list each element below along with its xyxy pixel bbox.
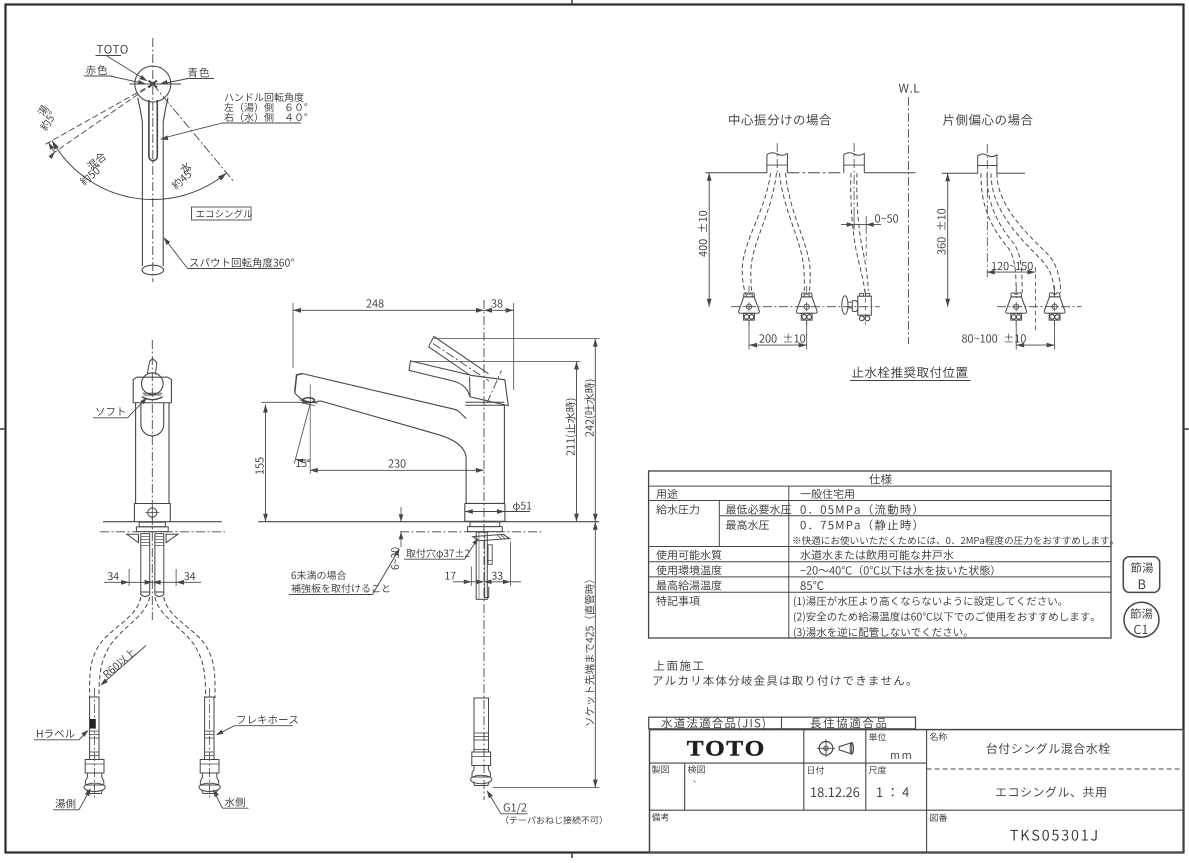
spec table row 使用環境温度 [656,565,721,575]
side handle lever (lowered) [409,361,508,406]
spec table outer frame [649,471,1111,638]
side handle raised position (dash-dot tilt axis) [429,336,489,373]
plan horizontal line through knob center [130,83,182,85]
plan dashed radial line hot limit [45,84,153,145]
side body column [465,457,467,503]
front label 湯側 with leader [55,799,75,809]
front label R60以上 rotated with leader [102,647,137,679]
plan label 湯 約5° (rotated) [36,104,49,117]
title block 日付 [808,766,824,774]
spec table row 使用可能水質 [656,550,721,560]
plan dash-dot radial line cold limit [153,84,233,181]
sheet center tick top [571,0,573,5]
plan label 混合 約50° (rotated) [86,151,108,171]
right diagram valve centerline [997,306,1082,308]
right diagram hoses (dashed) [981,173,1016,298]
dimension 200±10 [749,344,807,346]
right diagram stop valve 2 [1054,286,1056,295]
front mounting nuts under deck [139,522,165,527]
plan small arc 約5° [49,142,55,152]
label G1/2 with leader [504,803,527,814]
left diagram stop valve hot [748,286,750,295]
front label 水側 with leader [225,797,245,807]
front below-deck dash-dot line [100,531,225,533]
dimension 242(吐水時) right [594,339,596,522]
title block 図番 and product number [930,814,947,822]
plan label TOTO with leader [97,45,128,54]
front body shoulder section [133,377,171,403]
plan dashed radial line hot detent [51,84,153,155]
spec table row 特記事項 [656,596,699,606]
side deck counter line [258,521,599,523]
label 取付穴φ37±2 with leader [406,549,469,559]
left diagram valve centerline [731,306,880,308]
title 片側偏心の場合 [943,114,1033,125]
plan label 水 約45° (rotated) [178,161,192,175]
TOTO logo [687,741,763,756]
front hot pipe end fitting [85,760,104,774]
front mounting flange wings [127,534,139,542]
side shank bottom hook [485,587,489,598]
left diagram hose from stub2 (dashed) [851,173,865,293]
dimension φ51 [465,511,505,513]
side base escutcheon [465,503,505,521]
front supply pipe cold (right) [208,688,210,800]
title 中心振分けの場合 [729,114,831,126]
dimension 230 with 15° angle [310,469,484,471]
front label ソフト with leader [96,407,124,415]
spec table row lines [649,485,1111,487]
front handle ball [142,373,164,395]
sheet center tick left [0,428,6,430]
title block approval strip [649,717,916,729]
plan view handle lever outline [138,98,143,267]
front body lower [135,403,137,504]
left diagram deck line [705,172,767,174]
title 止水栓推奨取付位置 underlined [852,367,967,379]
dimension 211(止水時) right [576,362,578,522]
title block main frame [650,730,1184,853]
front shank tube bottom caps [141,592,150,597]
front hose right (dashed) [164,597,215,698]
15 degree water angle lines [294,404,310,464]
front dimension 34-34 [129,581,176,583]
front shank tubes [141,534,150,592]
title block 備考 [652,813,669,821]
note アルカリ本体分岐金具 [653,675,910,686]
W.L label and line [899,84,919,93]
side spout outline [303,374,467,419]
front hose left (dashed) [90,597,141,698]
label テーパおねじ接続不可 [506,816,601,825]
spec table row 給水圧力 [656,504,699,514]
front H-label black mark on hot pipe [90,719,96,729]
front base screw [148,508,157,517]
dimension 17-33 [453,581,521,583]
side below-deck dash-dot [400,531,543,533]
plan view handle knob circle [135,66,171,102]
dimension 80~100±10 [1016,344,1054,346]
right diagram deck line [942,172,978,174]
front supply pipe hot (left) [93,688,95,800]
front view centerline [151,340,153,620]
spec table row 用途 [656,489,677,499]
spec table row 最高給湯温度 [657,580,722,590]
side spout aerator rings [303,398,315,403]
front cold pipe end fitting [200,760,219,774]
front lever tip blade [147,359,157,375]
title block 単位 mm [869,733,886,741]
badge 節湯B [1123,557,1159,593]
front deck line [103,521,222,523]
spec table column lines [718,501,720,547]
side shank tube [476,532,487,599]
left diagram stop valve side view [842,296,848,314]
right diagram stop valve 1 [1015,286,1017,295]
plan view center mark [149,81,158,88]
plan rotation arc 湯-水 [52,141,227,200]
badge 節湯C1 [1124,602,1159,637]
front base section [134,504,170,522]
title block 名称 cell [930,732,947,740]
plan view centerline vertical [152,38,154,282]
front aerator rings under ball [143,392,163,394]
side clamp screw [488,545,492,565]
plan view spout outlet ellipse [142,265,164,275]
dimension ソケット先端まで425（直管時） [594,522,596,788]
dimension 400±10 [708,173,710,307]
side supply pipe with socket [474,698,489,752]
sheet center tick right [1184,428,1189,430]
spec table header 仕様 [869,474,891,485]
front spout U-tube [141,403,164,436]
plan label 青色 with leader [188,68,209,78]
third angle projection symbol [819,742,833,756]
dimension 0~50 [853,216,855,230]
dimension 155 left [265,405,267,522]
left diagram hoses from stub1 (dashed) [742,173,770,298]
dimension 120~150 [987,271,1036,273]
title block vertical dividers [803,730,805,811]
note 6未満の場合 補強板を取付けること [292,571,347,580]
note 上面施工 [654,660,703,671]
left diagram faucet stub 1 [767,153,788,173]
plan label エコシングル boxed [192,207,252,220]
plan view handle slot [149,100,157,161]
title block 製図 検図 [652,765,669,773]
title block 尺度 [869,766,886,774]
side mounting locknut below deck [470,522,500,527]
front label Hラベル with leader [37,730,74,738]
plan label スパウト回転角度360° with leader [190,258,294,268]
sheet center tick bottom [571,853,573,859]
dimension 248 and 38 (top) [293,309,514,311]
side clamp plate [473,534,510,540]
front label フレキホース with leader [238,715,298,724]
right diagram faucet stub [978,154,997,173]
left diagram faucet stub 2 [844,153,865,173]
left diagram stop valve cold [806,286,808,295]
dimension 6~30 [400,507,402,522]
plan label 赤色 with leader [86,65,107,75]
title block horizontal dividers [650,762,927,764]
spec table note 快適 [793,536,1113,545]
side view axis centerline [483,300,485,620]
spec table row 最高水圧 [726,520,769,530]
dimension 360±10 [947,173,949,306]
plan label ハンドル回転角度 block [225,93,304,102]
